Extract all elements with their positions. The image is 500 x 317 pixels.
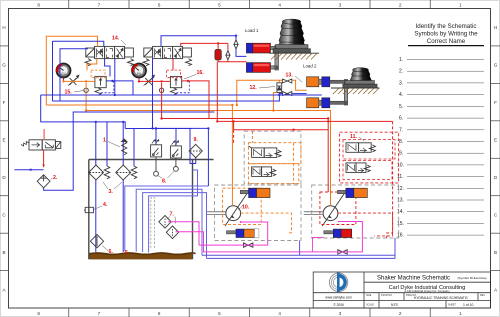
svg-text:8: 8 <box>37 3 40 8</box>
shut-off valve 13b <box>283 92 292 96</box>
flow control throttle 2 <box>144 75 155 85</box>
junction dot orange A/B <box>236 104 238 106</box>
leader for label 14 <box>121 40 126 45</box>
svg-text:2: 2 <box>399 3 402 8</box>
wire drop to float switch 1 <box>155 129 157 145</box>
pressure gauge G2 <box>132 64 146 82</box>
svg-text:6: 6 <box>158 311 161 316</box>
blue left riser <box>52 41 54 101</box>
wire drop to relief spring 1 <box>106 122 108 166</box>
directional control valve 14b <box>143 46 192 65</box>
junction dot gauge1 <box>62 80 64 82</box>
float switch 1 (item 8) <box>151 140 162 157</box>
load 2 rubber isolator <box>350 68 372 81</box>
svg-text:8.: 8. <box>399 139 403 145</box>
load 1 rubber isolator stack <box>278 19 305 47</box>
wire below filter F2 <box>122 180 124 252</box>
red drop to pump2 pilots <box>327 119 329 193</box>
svg-text:14.: 14. <box>397 209 404 215</box>
svg-text:© 2006: © 2006 <box>333 303 344 307</box>
svg-text:PSI: PSI <box>61 72 65 76</box>
svg-text:7: 7 <box>98 311 101 316</box>
junction dot valve14b return port <box>151 127 153 129</box>
cylinder C1 upper (red) <box>246 43 277 53</box>
svg-text:3: 3 <box>339 311 342 316</box>
red junction <box>232 120 234 122</box>
svg-text:4: 4 <box>278 3 281 8</box>
drain needle valve 2 (bowtie) <box>338 250 347 254</box>
pilot valve 1b <box>252 167 276 177</box>
orange top loop <box>46 36 97 105</box>
junction dot R2 pump2 <box>327 120 329 122</box>
leader for label 10 <box>238 206 243 211</box>
reservoir fluid sediment <box>90 253 196 259</box>
wire below filter F1 <box>95 180 97 252</box>
isolation valve (vertical, red line) <box>226 51 230 60</box>
load 1 platform <box>273 45 311 54</box>
wire drop to filter F1 <box>95 122 97 166</box>
pilot valve 2b <box>346 163 370 173</box>
orange item12 link <box>273 92 277 94</box>
blue port drop valve 14a to tank bus <box>114 59 116 95</box>
red shutoff drop <box>227 43 229 50</box>
svg-text:B: B <box>494 250 497 255</box>
load 1 yoke link <box>275 46 279 71</box>
frame zone numbers top <box>37 3 462 8</box>
leaders for label 8 <box>158 172 175 179</box>
return diffuser filters (item 7) <box>159 216 179 239</box>
svg-text:9.: 9. <box>194 137 199 143</box>
orange dashed stub to valve box 1a <box>252 131 254 143</box>
tank clean-out cover (item 4) <box>84 207 93 212</box>
float switch 2 (item 8) <box>170 141 181 158</box>
svg-text:7: 7 <box>98 3 101 8</box>
junction dot 15b <box>160 80 162 82</box>
blue bus B1 <box>41 94 322 96</box>
load 2 rods <box>330 80 345 104</box>
svg-text:8: 8 <box>37 311 40 316</box>
breather filter (item 9) <box>189 144 202 157</box>
svg-text:F: F <box>3 100 6 105</box>
blue bus B2 <box>53 95 280 101</box>
svg-text:8.: 8. <box>162 179 167 185</box>
red drop to pump1 pilots <box>233 121 235 129</box>
answer panel header <box>414 23 478 45</box>
orange junction <box>85 109 87 111</box>
svg-text:7.: 7. <box>170 212 175 218</box>
cylinder C1 lower (red) <box>246 63 277 73</box>
svg-text:5: 5 <box>218 3 221 8</box>
junction node <box>95 121 97 123</box>
directional control valve 14a <box>85 46 134 65</box>
svg-text:Load 2: Load 2 <box>303 64 317 69</box>
svg-text:SIZE: SIZE <box>366 294 372 297</box>
leader for label 15 <box>74 91 84 93</box>
orange port drop valve 14a <box>87 59 97 71</box>
pilot valve 1a <box>248 146 281 158</box>
blue return bus to tank <box>153 128 209 186</box>
pump 1 drive shaft <box>207 212 226 215</box>
variable displacement pump 1 <box>225 190 248 226</box>
pilot valve box 1b (orange dashed) <box>248 164 298 184</box>
variable displacement pump 2 <box>322 190 345 226</box>
wire drop to filter F2 <box>122 122 124 166</box>
junction dot item12 drain <box>272 109 274 111</box>
junction dot blue B1 <box>235 35 237 37</box>
junction dot gauge2 <box>138 80 140 82</box>
svg-text:3.: 3. <box>109 189 114 195</box>
svg-text:HYDRAULIC TRAINING SCHEMATIC: HYDRAULIC TRAINING SCHEMATIC <box>414 296 469 300</box>
leader for label 16 <box>184 75 196 80</box>
svg-text:6.: 6. <box>109 249 114 255</box>
red valve 14b top loop <box>181 43 228 46</box>
svg-text:H: H <box>494 25 497 30</box>
leader for label 6 <box>102 246 108 251</box>
return tube A <box>125 186 209 251</box>
pilot operated check valve (item 12) <box>277 83 282 93</box>
leader for label 5 <box>130 255 134 258</box>
orange branch to load 2 ports <box>292 80 307 90</box>
svg-text:1.: 1. <box>399 57 403 63</box>
gauge 1 branch (orange) <box>63 80 95 82</box>
blue drop 14a second port <box>105 59 110 77</box>
blue port drop valve 14b to return bus <box>152 59 154 129</box>
junction dot valve14a tank port <box>114 94 116 96</box>
svg-text:1: 1 <box>459 311 462 316</box>
orifice check 15b <box>159 88 163 92</box>
svg-text:Identify the Schematic: Identify the Schematic <box>416 23 477 30</box>
red top feed to accumulator <box>217 43 219 49</box>
leader for label 4 <box>94 206 102 210</box>
svg-text:1.: 1. <box>103 138 108 144</box>
red dashed drop to valve box 1a <box>233 130 235 143</box>
stroking cylinder 2 bottom <box>324 229 352 237</box>
stroking cylinder 1 bottom <box>227 229 259 238</box>
leader for label 1 <box>108 142 120 148</box>
svg-text:6: 6 <box>158 3 161 8</box>
gauge 2 branch (red) <box>139 80 170 82</box>
pilot box 16b (red dashed) <box>167 70 181 78</box>
red riser through orifice 15b <box>161 83 163 119</box>
blue top loop valve 14a <box>53 41 104 46</box>
red shutoff lower stub <box>227 60 229 62</box>
blue port drop valve 14b to reducing 16b <box>172 59 174 71</box>
junction dot R1 left <box>160 117 162 119</box>
svg-text:SCALE: SCALE <box>366 304 374 307</box>
svg-text:15.: 15. <box>397 221 404 227</box>
pilot section enclosure pump1 (gray dashed) <box>244 131 301 184</box>
cylinder C2 lower (orange) <box>307 98 330 108</box>
load 2 platform <box>343 81 377 88</box>
blue accumulator valve drop <box>236 49 246 56</box>
pressure reducing valve 16b <box>170 76 181 95</box>
blue from 13b to load2 <box>292 93 307 95</box>
leaders for label 7 <box>167 217 176 224</box>
suction filter F2 (item 3) <box>116 165 131 180</box>
stroking cylinder 1 top <box>240 188 270 197</box>
orange junction <box>231 104 233 106</box>
accumulator (top, by load 1) <box>215 49 221 60</box>
wire from check valve to header riser <box>44 112 215 190</box>
svg-text:6.: 6. <box>399 116 403 122</box>
pump 2 drive shaft <box>304 212 323 215</box>
blue valve 14b top loop <box>161 36 236 47</box>
svg-text:FSCM NO: FSCM NO <box>381 294 392 297</box>
orange dashed pilot riser <box>293 143 295 184</box>
ground hatching load 1 <box>269 53 319 59</box>
check valve spring 1 <box>122 139 127 155</box>
svg-text:7.: 7. <box>399 127 403 133</box>
svg-text:4: 4 <box>278 311 281 316</box>
leader for label 3 <box>103 182 122 189</box>
title block outline <box>313 272 490 308</box>
red junction <box>187 80 189 82</box>
svg-text:Shaker Machine Schematic: Shaker Machine Schematic <box>377 276 450 282</box>
svg-text:SHEET: SHEET <box>448 304 457 307</box>
svg-text:A CD Industrial Group Inc. Com: A CD Industrial Group Inc. Company <box>404 289 450 293</box>
red junction <box>327 117 329 119</box>
magenta line pump1 stroke <box>199 222 268 245</box>
suction strainer (item 6) <box>90 235 103 248</box>
pilot drain 16b (blue dashed) <box>176 81 189 93</box>
blue inner loop valve 14a <box>60 48 88 101</box>
return tube D <box>149 170 198 253</box>
magenta servo branch left of cylinder 2 <box>313 238 324 252</box>
svg-text:4.: 4. <box>103 202 108 208</box>
stroking cylinder 2 top <box>338 188 368 197</box>
float 2 stem and ball <box>174 158 179 171</box>
violet bottom bus <box>207 238 396 259</box>
pump 2 red pilot loop (dashed) <box>338 213 393 236</box>
cylinder C2 upper (orange) <box>307 77 330 87</box>
orange riser item 12 drain <box>272 93 274 111</box>
wire drop to float switch 2 <box>175 129 177 146</box>
blue drain line with arrow (to off-board) <box>14 169 43 171</box>
return tube B <box>136 189 202 255</box>
svg-text:Correct Name: Correct Name <box>427 38 466 45</box>
pilot drain 16a (blue dashed) <box>100 81 113 93</box>
drain needle valve 1 (bowtie) <box>244 243 253 247</box>
frame zone numbers bottom <box>37 311 462 316</box>
red junction <box>292 129 294 131</box>
svg-text:2.: 2. <box>53 175 58 181</box>
orange load2 branch <box>237 80 283 105</box>
flow control throttle 1 <box>68 75 79 85</box>
red pilot header <box>234 129 329 131</box>
wire to breather <box>190 129 196 164</box>
arrowhead on blue drain <box>28 168 32 171</box>
red right edge drop (dashed) <box>387 121 393 237</box>
blue left riser to tank header <box>41 95 126 129</box>
pilot box 16a (orange dashed) <box>91 70 105 78</box>
red label 10 leader spot <box>240 221 242 223</box>
svg-text:F: F <box>494 100 497 105</box>
magenta line item7a feed <box>168 222 199 245</box>
company logo <box>329 273 347 292</box>
svg-text:REV: REV <box>480 294 485 297</box>
orange bus B <box>86 111 330 206</box>
blue supply header above tank <box>125 128 192 130</box>
return tube C <box>143 193 207 259</box>
svg-text:10.: 10. <box>397 162 404 168</box>
pump 2 coupling box (red dashed) <box>320 192 356 225</box>
svg-text:4.: 4. <box>399 92 403 98</box>
svg-text:(Symbol ID Exercise): (Symbol ID Exercise) <box>458 276 487 280</box>
svg-text:12.: 12. <box>250 85 258 91</box>
svg-text:Load 1: Load 1 <box>245 28 259 33</box>
shut-off valve 13a <box>283 79 292 83</box>
svg-text:13.: 13. <box>397 198 404 204</box>
level sight gauge (dashed) <box>151 197 155 249</box>
check valve (item 2) <box>37 175 50 188</box>
leader for label 11 <box>359 137 364 141</box>
svg-text:E: E <box>494 138 497 143</box>
float 1 stem and ball <box>154 157 159 176</box>
pilot valve box 2 outer (red dashed) <box>340 132 399 183</box>
pump 1 orange pilot loop (dashed) <box>241 213 292 233</box>
relief valve spring 2 (item 3) <box>131 166 137 179</box>
orange riser through orifice 15a <box>85 83 87 111</box>
frame zone letters right <box>494 25 498 293</box>
solenoid shut-off valve (item 5) on left <box>21 140 61 150</box>
junction node <box>155 127 157 129</box>
junction dot 15a <box>85 80 87 82</box>
pump 1 enclosure (gray dashed) <box>215 185 302 241</box>
svg-text:3.: 3. <box>399 80 403 86</box>
leader for label 12 <box>259 87 275 89</box>
red pilot wire from valve 5 <box>43 150 45 167</box>
pressure reducing valve 16a <box>95 76 106 95</box>
pump 2 enclosure (gray dashed) <box>312 185 399 238</box>
svg-text:9.: 9. <box>399 151 403 157</box>
load 2 yoke link <box>344 80 348 106</box>
svg-text:13.: 13. <box>286 73 294 79</box>
orange check valve 12 stub <box>278 80 280 83</box>
svg-text:G: G <box>494 63 498 68</box>
svg-text:11.: 11. <box>350 134 357 140</box>
arrowhead on red pilot <box>42 165 45 168</box>
wire drop to relief spring 2 <box>133 129 135 167</box>
pressure gauge G1 <box>57 64 71 82</box>
isolation valve (vertical, blue line) <box>234 40 238 49</box>
svg-text:1: 1 <box>459 3 462 8</box>
red junction <box>217 42 219 44</box>
blue bottom bus <box>202 254 395 256</box>
svg-text:12.: 12. <box>397 186 404 192</box>
svg-text:3: 3 <box>339 3 342 8</box>
motor coupling box (orange dashed) <box>223 188 262 224</box>
junction node <box>122 121 124 123</box>
blue junction <box>278 94 280 96</box>
svg-text:E: E <box>2 138 5 143</box>
svg-text:10.: 10. <box>242 205 250 211</box>
svg-text:2: 2 <box>399 311 402 316</box>
red accumulator column down <box>216 62 218 122</box>
svg-text:G: G <box>2 63 6 68</box>
svg-text:16.: 16. <box>197 70 205 76</box>
blue stub item12 bottom <box>278 93 280 96</box>
blue stub from reducing valve 16a <box>106 81 133 95</box>
svg-text:H: H <box>2 25 5 30</box>
svg-text:PSI: PSI <box>137 72 141 76</box>
pilot valve box 1a (orange dashed) <box>248 143 301 164</box>
red bus R2 <box>217 120 392 122</box>
junction dot R2 <box>216 120 218 122</box>
relief valve spring 1 (item 3) <box>104 166 110 179</box>
frame zone letters left <box>2 25 6 293</box>
leader for label 2 <box>51 178 53 180</box>
suction filter F1 (item 3) <box>89 165 104 180</box>
reservoir tank outline <box>89 160 214 259</box>
blue junction <box>111 80 113 82</box>
svg-text:1 of 10: 1 of 10 <box>463 303 473 307</box>
junction dot tube A <box>207 127 209 129</box>
svg-text:14.: 14. <box>112 36 120 42</box>
orange bus A <box>46 105 232 206</box>
orifice check 15a <box>84 88 88 92</box>
tank return drop tubes <box>125 170 209 258</box>
svg-text:www.carldyke.com: www.carldyke.com <box>325 295 352 299</box>
svg-text:5: 5 <box>218 311 221 316</box>
svg-text:2.: 2. <box>399 69 403 75</box>
blue load2 return <box>279 94 282 95</box>
answer panel header underline <box>408 45 484 47</box>
red stub from reducing valve 16b <box>182 81 209 119</box>
pilot valve box 2a (red dashed) <box>343 140 395 160</box>
svg-text:Symbols by Writing the: Symbols by Writing the <box>414 31 478 38</box>
ground hatching load 2 <box>331 88 380 94</box>
svg-text:5.: 5. <box>399 104 403 110</box>
svg-text:11.: 11. <box>397 174 404 180</box>
svg-text:NTS: NTS <box>391 303 399 307</box>
pilot valve box 2b (red dashed) <box>343 161 392 180</box>
magenta line item7b long bus <box>176 222 363 252</box>
blue drain pump1 box to bus <box>299 241 301 256</box>
svg-text:B: B <box>2 250 5 255</box>
pilot valve 2a <box>346 143 375 153</box>
red bus R1 <box>162 118 329 120</box>
red pilot stub above valve 5 <box>43 129 45 140</box>
svg-text:5.: 5. <box>125 250 130 256</box>
red accumulator to cylinders <box>218 60 246 62</box>
leader for label 13 <box>295 76 302 82</box>
answer blank line 1 <box>397 57 484 239</box>
